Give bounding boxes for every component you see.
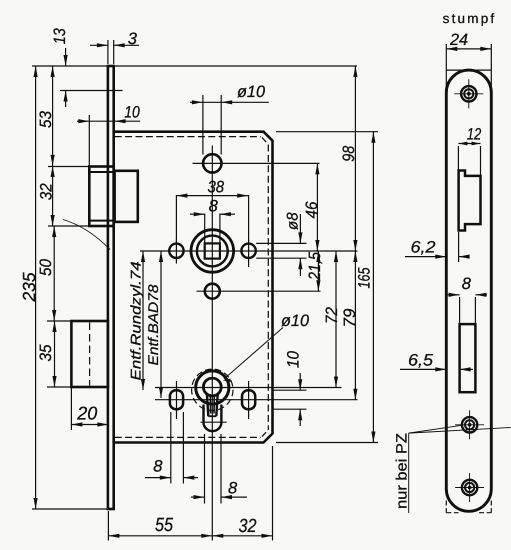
cylinder horizontal centreline (155, 387, 342, 389)
follower outer circle (191, 230, 234, 273)
leader line nur bei PZ vertical (408, 433, 410, 513)
side hole left D8 (169, 244, 183, 258)
latch spring curve (63, 220, 110, 250)
extension side hole left up (175, 195, 177, 243)
extension faceplate front down (107, 511, 109, 541)
dimension 10 post height (299, 373, 301, 390)
lock case outline (114, 132, 273, 443)
latch guide housing inside case (115, 171, 138, 222)
extension faceplate right above top (113, 40, 115, 64)
dimension 13 (65, 48, 67, 66)
dimension Entf.BAD78 (160, 251, 162, 398)
svg-text:20: 20 (76, 402, 98, 423)
extension line 13mm screw axis (60, 90, 123, 92)
svg-text:10: 10 (285, 350, 303, 368)
stulp screw bottom (462, 480, 477, 495)
extension latch top left (48, 166, 89, 168)
extension case right down (272, 446, 274, 541)
extension side hole bottom edge right (256, 257, 306, 259)
latch bevel line upper (89, 171, 113, 173)
extension post bottom edge right (274, 408, 307, 410)
svg-text:21,5: 21,5 (306, 251, 324, 281)
leader line to case (409, 428, 511, 434)
keyway stadium cross line (201, 421, 227, 423)
extension follower square right up (219, 214, 221, 243)
svg-text:8: 8 (153, 457, 163, 475)
extension latch cutout left edge down (458, 232, 460, 262)
vertical centreline main (211, 146, 213, 541)
wire faceplate top extension line (32, 65, 357, 67)
dimension Entf.Rundzyl.74 (142, 251, 144, 390)
extension side hole top edge right (256, 242, 306, 244)
dimension 8 deadbolt cutout (447, 294, 460, 296)
svg-text:55: 55 (155, 515, 173, 536)
svg-text:6,2: 6,2 (410, 238, 435, 256)
follower inner circle (197, 236, 228, 267)
svg-text:46: 46 (303, 201, 321, 219)
dimension 12 latch cutout (458, 143, 480, 145)
svg-text:38: 38 (207, 178, 224, 196)
keyway stem foot line (208, 415, 216, 417)
svg-text:8: 8 (209, 197, 219, 215)
svg-text:35: 35 (37, 344, 55, 362)
extension deadbolt bottom left (47, 386, 71, 388)
stulp top tangent line (446, 69, 491, 71)
round cylinder hidden circle D22 (192, 369, 233, 410)
keyway stem left (207, 394, 208, 416)
extension post top edge right (274, 389, 307, 391)
svg-text:98: 98 (340, 145, 358, 162)
dimension 32 backset to rear (212, 535, 272, 537)
dimension D10 top hole (190, 101, 269, 103)
leader line to PZ screw (409, 425, 462, 433)
stulp faceplate front view (446, 70, 491, 511)
hole D8 below follower (205, 284, 220, 299)
case top extension line to right dims (276, 131, 378, 133)
dimension 79 (354, 251, 356, 400)
svg-text:53: 53 (37, 110, 55, 128)
svg-text:13: 13 (51, 27, 69, 44)
left post slot (170, 390, 183, 409)
hole D10 horizontal centreline (193, 162, 320, 164)
extension keyway stadium edges down (204, 434, 206, 504)
stulp square-end option dashes left (445, 501, 447, 513)
keyway stem inner left (209, 395, 211, 413)
extension latch face up (88, 115, 90, 166)
deadbolt hidden retracted edge (89, 323, 91, 386)
dimension 35 deadbolt height (54, 321, 56, 387)
deadbolt cutout in stulp (460, 324, 476, 392)
svg-text:165: 165 (356, 267, 374, 289)
deadbolt thrown position (71, 321, 108, 387)
dimension 21,5 (317, 251, 319, 291)
follower square 8mm (205, 243, 220, 258)
keyway top circle D10 (203, 378, 221, 396)
side hole right D8 (241, 244, 255, 258)
dimension 8 keyway width (191, 496, 205, 498)
dimension 8 follower square (190, 213, 205, 215)
latch bolt protruding head (89, 167, 113, 227)
dimension 72 follower-cylinder (335, 251, 337, 388)
svg-text:ø10: ø10 (281, 312, 310, 330)
extension deadbolt left edge down (70, 388, 72, 430)
stulp square-end option dashes right (490, 501, 492, 513)
svg-text:3: 3 (128, 30, 138, 48)
svg-text:72: 72 (323, 307, 341, 324)
svg-text:6,5: 6,5 (408, 351, 434, 369)
extension hole D10 left edge up (202, 95, 204, 155)
hole D10 top (203, 154, 221, 172)
case bottom extension line to right dims (276, 442, 378, 444)
dimension 6,5 (400, 368, 446, 370)
follower horizontal centreline (140, 250, 358, 252)
dimension 8 left post width (145, 477, 171, 479)
dimension 46 (316, 163, 318, 251)
svg-text:Entf.Rundzyl.74: Entf.Rundzyl.74 (128, 261, 144, 380)
svg-text:50: 50 (37, 258, 55, 276)
lock case hidden inner edge top (115, 136, 261, 138)
keyway stem inner right (213, 395, 215, 413)
dimension 38 side holes (176, 195, 248, 197)
svg-text:ø8: ø8 (285, 212, 302, 230)
extension follower square left up (204, 214, 206, 243)
dimension 98 (354, 66, 356, 251)
extension deadbolt cutout edges up (459, 297, 461, 323)
post horizontal centreline (155, 399, 358, 401)
extension hole D10 right edge up (220, 95, 222, 155)
svg-text:Entf.BAD78: Entf.BAD78 (145, 284, 161, 365)
svg-text:32: 32 (38, 183, 56, 200)
svg-text:79: 79 (341, 309, 359, 328)
dimension 20 deadbolt throw (71, 424, 108, 426)
dimension 10 latch protrusion (77, 120, 140, 122)
latch cutout in stulp (459, 171, 481, 231)
extension deadbolt top left (47, 320, 71, 322)
svg-text:24: 24 (449, 31, 468, 49)
dimension 24 stulp width (446, 48, 491, 50)
svg-text:stumpf: stumpf (443, 11, 497, 26)
left post vertical tick (176, 381, 178, 419)
extension stulp right up (490, 44, 492, 100)
extension faceplate bottom left (32, 508, 107, 510)
lock case hidden inner edge right (267, 145, 269, 431)
dimension 165 case height (372, 132, 374, 443)
extension left post edges down (170, 412, 172, 484)
svg-text:235: 235 (19, 272, 39, 302)
svg-text:nur bei PZ: nur bei PZ (394, 433, 411, 509)
lock case hidden chamfer top-right (262, 138, 268, 144)
dimension 6,2 (405, 256, 446, 258)
svg-text:8: 8 (462, 275, 472, 293)
extension stulp left up (445, 44, 447, 100)
dimension 32 latch height (52, 166, 54, 226)
right post slot (242, 390, 255, 409)
round keyway lower stadium (204, 405, 222, 432)
hole D8 horizontal centreline (197, 290, 321, 292)
extension faceplate left above top (107, 40, 109, 64)
latch bevel line lower (89, 220, 113, 222)
stulp screw top (461, 86, 476, 101)
lock case hidden inner edge bottom (115, 436, 261, 438)
svg-text:32: 32 (238, 516, 256, 537)
svg-text:10: 10 (124, 103, 140, 121)
profile cylinder outer circle (196, 371, 229, 404)
side hole right vertical tick (248, 240, 250, 268)
lock case hidden chamfer bottom-right (262, 431, 268, 437)
dimension 3 faceplate thickness (90, 44, 108, 46)
svg-text:8: 8 (228, 479, 238, 497)
extension side hole right up (248, 195, 250, 243)
dimension 235 total length (35, 66, 37, 509)
dimension D8 side hole (299, 214, 301, 243)
dimension 50 (53, 226, 55, 321)
side hole left vertical tick (175, 240, 177, 264)
svg-text:12: 12 (467, 125, 482, 143)
dimension 53 (52, 66, 54, 166)
stulp screw middle (PZ) (462, 417, 477, 432)
extension latch bottom left (48, 225, 89, 227)
dimension 55 backset (108, 535, 212, 537)
extension latch cutout edges up (457, 146, 459, 170)
svg-text:ø10: ø10 (237, 83, 266, 101)
right post vertical tick (248, 381, 250, 419)
faceplate (side view, 3mm strip) (108, 66, 114, 509)
keyway stem right (216, 394, 217, 416)
